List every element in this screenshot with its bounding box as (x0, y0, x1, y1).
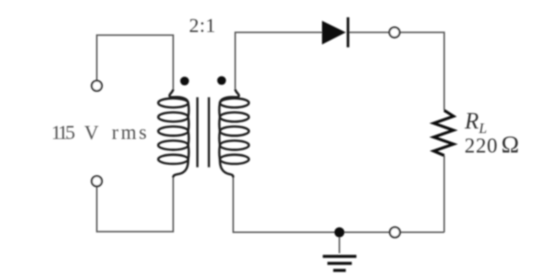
svg-text:220Ω: 220Ω (465, 133, 520, 159)
svg-text:115Vrms: 115Vrms (51, 122, 149, 144)
svg-text:2:1: 2:1 (189, 15, 216, 37)
